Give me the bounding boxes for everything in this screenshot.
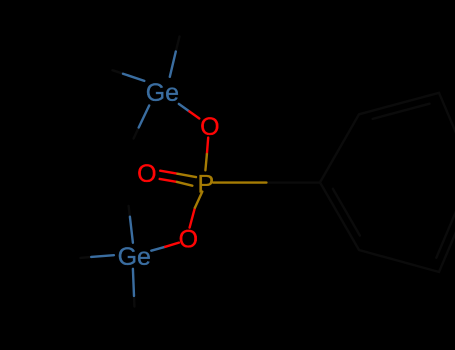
svg-text:P: P [198,171,215,199]
svg-text:O: O [137,160,156,188]
svg-text:Ge: Ge [146,79,179,107]
svg-text:O: O [179,226,198,254]
svg-text:O: O [200,113,219,141]
svg-text:Ge: Ge [118,243,151,271]
